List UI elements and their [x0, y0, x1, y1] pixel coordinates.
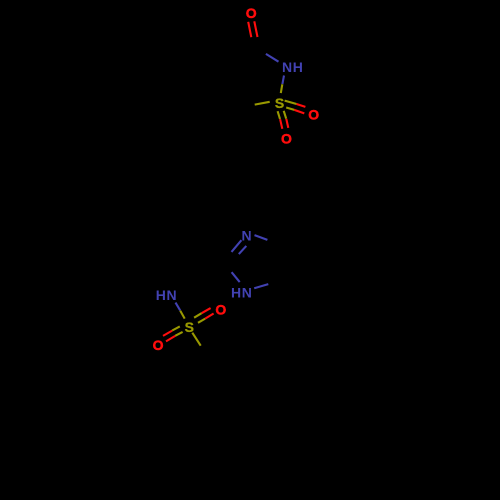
- imidazole N1-C5 bond (N half): [254, 284, 268, 288]
- imidazole N3=C2 double bond outer line (N half): [232, 240, 242, 252]
- C=O double bond (O half, line 1): [248, 22, 251, 37]
- S2=O5 double bond line 1 (S half): [172, 326, 180, 330]
- imidazole N3-C4 bond (N half): [255, 235, 268, 240]
- imidazole N3=C2 double bond inner line (N half): [239, 246, 247, 254]
- svg-text:NH: NH: [282, 59, 303, 75]
- svg-text:S: S: [275, 95, 285, 111]
- S2=O4 double bond line 2 (S half): [198, 319, 205, 323]
- S1=O2 double bond line 1 (S half): [285, 101, 297, 104]
- S1=O3 double bond line 1 (O half): [280, 119, 282, 129]
- S2=O5 double bond line 1 (O half): [163, 331, 172, 336]
- S2=O5 double bond line 2 (S half): [175, 332, 182, 336]
- svg-text:HN: HN: [231, 284, 252, 300]
- S1=O3 double bond line 1 (S half): [278, 111, 280, 119]
- S2=O4 double bond line 1 (S half): [194, 313, 202, 318]
- S1=O2 double bond line 2 (S half): [286, 108, 294, 110]
- svg-text:O: O: [281, 131, 293, 147]
- sulfonamide N4-S2 bond (S half): [180, 311, 185, 319]
- svg-text:HN: HN: [156, 287, 177, 303]
- svg-text:O: O: [308, 107, 320, 123]
- svg-text:O: O: [215, 301, 227, 317]
- S1=O2 double bond line 2 (O half): [294, 110, 304, 114]
- sulfonamide N4-S2 bond (N half): [176, 303, 181, 311]
- S2-CH3 bond (S half): [192, 333, 200, 346]
- S2=O4 double bond line 2 (O half): [205, 314, 213, 319]
- N-S ring bond (S half): [281, 84, 283, 93]
- svg-text:O: O: [153, 337, 165, 353]
- S2=O4 double bond line 1 (O half): [202, 308, 211, 313]
- C=O double bond (O half, line 2): [254, 21, 257, 37]
- S2=O5 double bond line 2 (O half): [166, 336, 175, 342]
- amide C-N bond (N half): [266, 54, 279, 62]
- S1-C aryl bond (S half): [255, 102, 270, 105]
- S1=O2 double bond line 1 (O half): [297, 104, 306, 107]
- svg-text:O: O: [246, 5, 258, 21]
- S1=O3 double bond line 2 (O half): [286, 119, 288, 128]
- imidazole C2-N1 bond (N half): [232, 272, 240, 282]
- S1=O3 double bond line 2 (S half): [284, 111, 287, 119]
- N-S ring bond (N half): [282, 76, 284, 85]
- svg-text:N: N: [242, 227, 253, 243]
